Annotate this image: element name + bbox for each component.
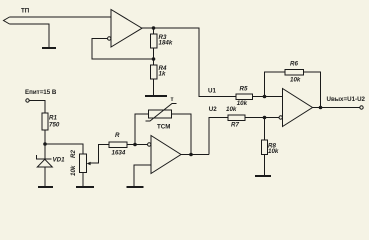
op-amp U3 (difference amplifier) xyxy=(283,89,313,127)
svg-text:R6: R6 xyxy=(290,61,298,68)
thermistor diagonal strike xyxy=(146,104,177,122)
wire: op-amp 2 output xyxy=(181,154,209,156)
R2 wiper arrowhead xyxy=(87,162,91,165)
ground (R8 bottom) xyxy=(255,175,271,177)
resistor R5 xyxy=(236,94,253,100)
svg-text:Uвых=U1-U2: Uвых=U1-U2 xyxy=(327,96,366,103)
wire: VD1 anode to ground xyxy=(44,167,46,187)
svg-text:U2: U2 xyxy=(209,106,217,113)
wire: TCM left lead down to inverting input line xyxy=(135,114,149,145)
op-amp U2 (thermistor amplifier) xyxy=(151,136,181,174)
thermistor TCM body xyxy=(149,110,172,118)
inverting input bubble op-amp 3 xyxy=(279,116,282,119)
svg-text:R5: R5 xyxy=(240,86,248,93)
resistor R3 xyxy=(153,28,155,34)
wire: U2 line from op-amp 2 output up to R7 xyxy=(209,118,228,155)
svg-text:VD1: VD1 xyxy=(53,157,66,164)
svg-text:т: т xyxy=(171,96,174,103)
node: R1 / R2 / VD1 junction xyxy=(43,142,47,146)
resistor R6 xyxy=(285,69,304,75)
ground (op-amp 2 non-inverting input) xyxy=(127,186,144,188)
svg-text:R1: R1 xyxy=(49,115,57,122)
ground (thermocouple) xyxy=(42,47,56,49)
wire: R6 feedback left leg xyxy=(265,72,286,97)
wire: R resistor to inverting input xyxy=(127,144,148,146)
wire: TCM right lead down to output node xyxy=(172,114,192,155)
svg-text:ТП: ТП xyxy=(21,8,30,15)
zener diode VD1 anode triangle xyxy=(37,159,52,167)
ground (R4 bottom) xyxy=(145,95,167,97)
inverting input bubble op-amp 1 xyxy=(108,37,111,40)
thermocouple ТП probe tip xyxy=(4,17,10,24)
terminal Eпит xyxy=(26,99,29,102)
wire: op-amp 3 output to Uout terminal xyxy=(313,107,361,109)
resistor R (1634) xyxy=(109,142,127,148)
svg-text:10k: 10k xyxy=(268,148,279,155)
wire: op-amp 1 feedback from R3/R4 junction to inverting input xyxy=(92,39,154,60)
wire: R6 right leg to output node xyxy=(304,72,321,108)
svg-text:1634: 1634 xyxy=(112,150,126,157)
wire: thermocouple return lead down to ground xyxy=(10,24,50,47)
ground (VD1) xyxy=(38,186,53,188)
svg-text:R: R xyxy=(115,132,120,139)
wire: Eпит terminal to R1 xyxy=(29,101,45,114)
svg-text:10k: 10k xyxy=(226,106,237,113)
node: R / TCM / op-amp 2 inverting input xyxy=(133,143,137,147)
node: R7 / R8 junction xyxy=(263,116,267,120)
resistor R8 xyxy=(264,118,266,141)
wire: R2 wiper to resistor R xyxy=(90,145,110,164)
wire: R7 to op-amp 3 inverting input xyxy=(245,117,279,119)
svg-text:1k: 1k xyxy=(159,71,166,78)
svg-text:184k: 184k xyxy=(159,40,173,47)
potentiometer R2 body xyxy=(79,154,86,173)
svg-text:750: 750 xyxy=(49,122,60,129)
resistor R7 xyxy=(228,115,245,121)
svg-text:TCM: TCM xyxy=(157,124,170,131)
wire: R5 to op-amp 3 non-inverting input xyxy=(253,96,283,98)
node: R3/R4 junction (feedback tap) xyxy=(152,57,156,61)
wire: op-amp 2 non-inverting input to ground xyxy=(134,165,151,186)
wire: thermocouple to op-amp 1 non-inverting input xyxy=(10,16,112,18)
resistor R4 xyxy=(153,59,155,65)
svg-text:10k: 10k xyxy=(70,165,77,176)
inverting input bubble op-amp 2 xyxy=(148,143,151,146)
ground (R2 bottom) xyxy=(76,186,94,188)
svg-text:R7: R7 xyxy=(231,122,239,129)
wire: R2 top to R1/VD1 junction xyxy=(45,144,83,154)
node: output / R6 junction xyxy=(319,106,323,110)
wire: op-amp 1 output to U1 line and R5 xyxy=(142,28,236,97)
node: op-amp 2 output / TCM feedback xyxy=(189,153,193,157)
svg-text:U1: U1 xyxy=(208,88,216,95)
svg-text:R2: R2 xyxy=(70,150,77,158)
svg-text:10k: 10k xyxy=(290,77,301,84)
zener diode VD1 cathode bar xyxy=(37,155,52,159)
wire: R1 bottom through junction to VD1 xyxy=(44,130,46,159)
node: op-amp 1 output / R3 top xyxy=(152,26,156,30)
node: R5 / R6 feedback tap xyxy=(263,95,267,99)
svg-text:Eпит=15 В: Eпит=15 В xyxy=(25,89,57,96)
terminal Uвых xyxy=(360,106,363,109)
op-amp U1 (input amplifier) xyxy=(111,10,142,48)
wire: R2 bottom to ground xyxy=(82,173,84,187)
resistor R1 xyxy=(42,113,48,130)
svg-text:10k: 10k xyxy=(237,100,248,107)
